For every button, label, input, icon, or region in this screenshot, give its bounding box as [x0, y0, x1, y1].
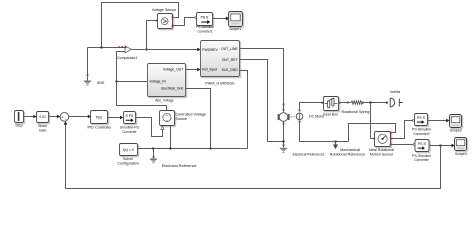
- svg-text:Voltage_IN: Voltage_IN: [149, 79, 166, 83]
- svg-text:Source: Source: [176, 117, 187, 121]
- svg-text:f(x) = 0: f(x) = 0: [123, 148, 134, 152]
- mechanical rotational reference: [330, 142, 365, 157]
- svg-text:PS-Simulink: PS-Simulink: [412, 128, 431, 132]
- svg-text:0.01: 0.01: [39, 115, 46, 119]
- wire: spring to inertia with junction: [364, 102, 387, 104]
- svg-text:FWD/REV: FWD/REV: [202, 48, 218, 52]
- wire: converter2 to Scope2: [428, 119, 450, 123]
- ground Electrical Reference1: [280, 148, 325, 157]
- svg-text:PS S: PS S: [417, 116, 425, 120]
- wire: sensor output to PS-Simulink Converter1: [173, 17, 197, 26]
- block PID Controller: [88, 111, 113, 130]
- wire: sum to PID: [69, 115, 91, 119]
- block Gear Box: [321, 97, 340, 117]
- svg-text:Slider: Slider: [38, 124, 48, 128]
- block PS-Simulink Converter2: [412, 114, 431, 137]
- wire: sensor case loop to mechanical reference: [349, 124, 396, 142]
- wire: feedback loop to sum junction: [64, 121, 441, 188]
- svg-text:PS-Simulink: PS-Simulink: [196, 25, 214, 29]
- svg-text:Ref_Input: Ref_Input: [202, 68, 217, 72]
- wire: spring junction down to rotational sensor R port: [371, 103, 374, 139]
- wire: GND loop from sensor top port around to comparator input rail: [88, 3, 179, 76]
- svg-text:PWM_H BRIDGE: PWM_H BRIDGE: [205, 82, 235, 86]
- wire: OUT_LINE to DC motor +: [240, 49, 285, 112]
- svg-text:Motion Sensor: Motion Sensor: [370, 153, 394, 157]
- subsystem Abs_Voltage: [148, 64, 187, 103]
- scope Scope2: [450, 115, 463, 133]
- svg-text:Electrical_Gnd: Electrical_Gnd: [161, 87, 183, 91]
- wire: step to slider gain: [24, 115, 37, 119]
- wire: Voltage_OUT to Ref_Input: [186, 68, 201, 72]
- block Controlled Voltage Source: [160, 111, 206, 130]
- wire: sensor A output to converter: [391, 144, 416, 146]
- wire: PID to Simulink-PS Converter: [108, 116, 124, 120]
- subsystem PWM_H BRIDGE: [201, 41, 241, 86]
- block Solver Configuration: [117, 144, 138, 166]
- ground Electrical Reference: [150, 149, 197, 168]
- scope Scope1: [229, 12, 244, 31]
- ground GND: [84, 75, 105, 86]
- svg-text:GND: GND: [97, 81, 105, 85]
- svg-text:Gain: Gain: [39, 128, 47, 132]
- block Simulink-PS Converter: [120, 112, 140, 134]
- svg-text:Rotational Spring: Rotational Spring: [342, 110, 370, 114]
- node: measured voltage net junction and wire to Voltage_IN: [116, 81, 167, 111]
- wire: S-PS converter to CVS control port: [136, 118, 163, 137]
- wire: comparator output to PWM FWD/REV: [131, 48, 200, 52]
- wire: gain to sum: [49, 115, 61, 119]
- svg-text:Comparator1: Comparator1: [117, 56, 138, 60]
- svg-text:Scope2: Scope2: [450, 129, 462, 133]
- svg-text:Simulink-PS: Simulink-PS: [120, 125, 140, 129]
- svg-text:Converter1: Converter1: [197, 30, 212, 34]
- svg-text:Mechanical: Mechanical: [340, 148, 360, 152]
- svg-text:ELE_GND: ELE_GND: [222, 68, 238, 72]
- svg-text:Electrical Reference1: Electrical Reference1: [293, 153, 325, 157]
- svg-text:Rotational Reference: Rotational Reference: [330, 153, 365, 157]
- svg-text:Scope1: Scope1: [229, 27, 241, 31]
- rotational spring: [342, 101, 370, 114]
- svg-text:Configuration: Configuration: [117, 161, 138, 165]
- sum junction: [60, 113, 69, 123]
- wire: electrical ground rail: [138, 148, 248, 150]
- svg-text:Gear Box: Gear Box: [323, 113, 338, 117]
- svg-text:Scope3: Scope3: [455, 152, 467, 156]
- wire: motor negative down to Electrical Reference1: [283, 121, 285, 147]
- voltage sensor: [152, 8, 177, 30]
- svg-text:Abs_Voltage: Abs_Voltage: [155, 99, 174, 103]
- svg-text:Controlled Voltage: Controlled Voltage: [176, 113, 206, 117]
- wire: mechanical reference net from motor case: [300, 122, 349, 143]
- svg-text:Voltage_OUT: Voltage_OUT: [163, 68, 183, 72]
- svg-text:PS S: PS S: [418, 142, 426, 146]
- wire: sensor W output to converter2: [391, 120, 415, 139]
- svg-text:Converter2: Converter2: [413, 132, 430, 136]
- svg-text:Voltage Sensor: Voltage Sensor: [152, 8, 177, 12]
- wire: CVS negative terminal to rail: [170, 126, 172, 149]
- svg-text:Converter: Converter: [122, 130, 137, 134]
- DC motor assembly: [278, 109, 325, 125]
- block Inertia: [386, 90, 403, 107]
- scope Scope3: [455, 138, 468, 156]
- wire: OUT_RET down to motor - node: [240, 60, 284, 142]
- svg-text:Step: Step: [15, 124, 22, 128]
- block Slider Gain: [37, 112, 50, 133]
- wire: Abs Electrical_Gnd to rail: [186, 89, 211, 149]
- svg-text:Inertia: Inertia: [390, 90, 400, 94]
- svg-text:Electrical Reference: Electrical Reference: [162, 164, 197, 168]
- block Ideal Rotational Motion Sensor: [369, 132, 394, 157]
- wire: gear box to spring: [339, 102, 352, 104]
- wire: converter1 to Scope1: [213, 17, 230, 21]
- wire: motor shaft up to gear box: [300, 103, 322, 111]
- wire: sensor left port down to comparator output junction: [146, 21, 157, 51]
- wire: converter to Scope3 and feedback junction: [429, 144, 455, 148]
- wire: ELE_GND to ground rail: [240, 71, 248, 149]
- svg-text:OUT_LINE: OUT_LINE: [221, 47, 238, 51]
- comparator Comparator1: [117, 46, 138, 60]
- svg-text:OUT_RET: OUT_RET: [222, 58, 238, 62]
- svg-text:PID Controller: PID Controller: [88, 126, 113, 130]
- svg-text:P(s): P(s): [96, 115, 102, 119]
- svg-text:Solver: Solver: [123, 157, 134, 161]
- svg-text:S PS: S PS: [126, 114, 134, 118]
- block PS-Simulink Converter1: [196, 13, 214, 34]
- svg-text:PS S: PS S: [201, 15, 209, 19]
- wire: comparator input2 riser: [117, 52, 126, 82]
- svg-text:Converter: Converter: [414, 158, 429, 162]
- block PS-Simulink Converter: [412, 140, 431, 163]
- block Step: [15, 111, 25, 128]
- svg-text:Ideal Rotational: Ideal Rotational: [369, 148, 394, 152]
